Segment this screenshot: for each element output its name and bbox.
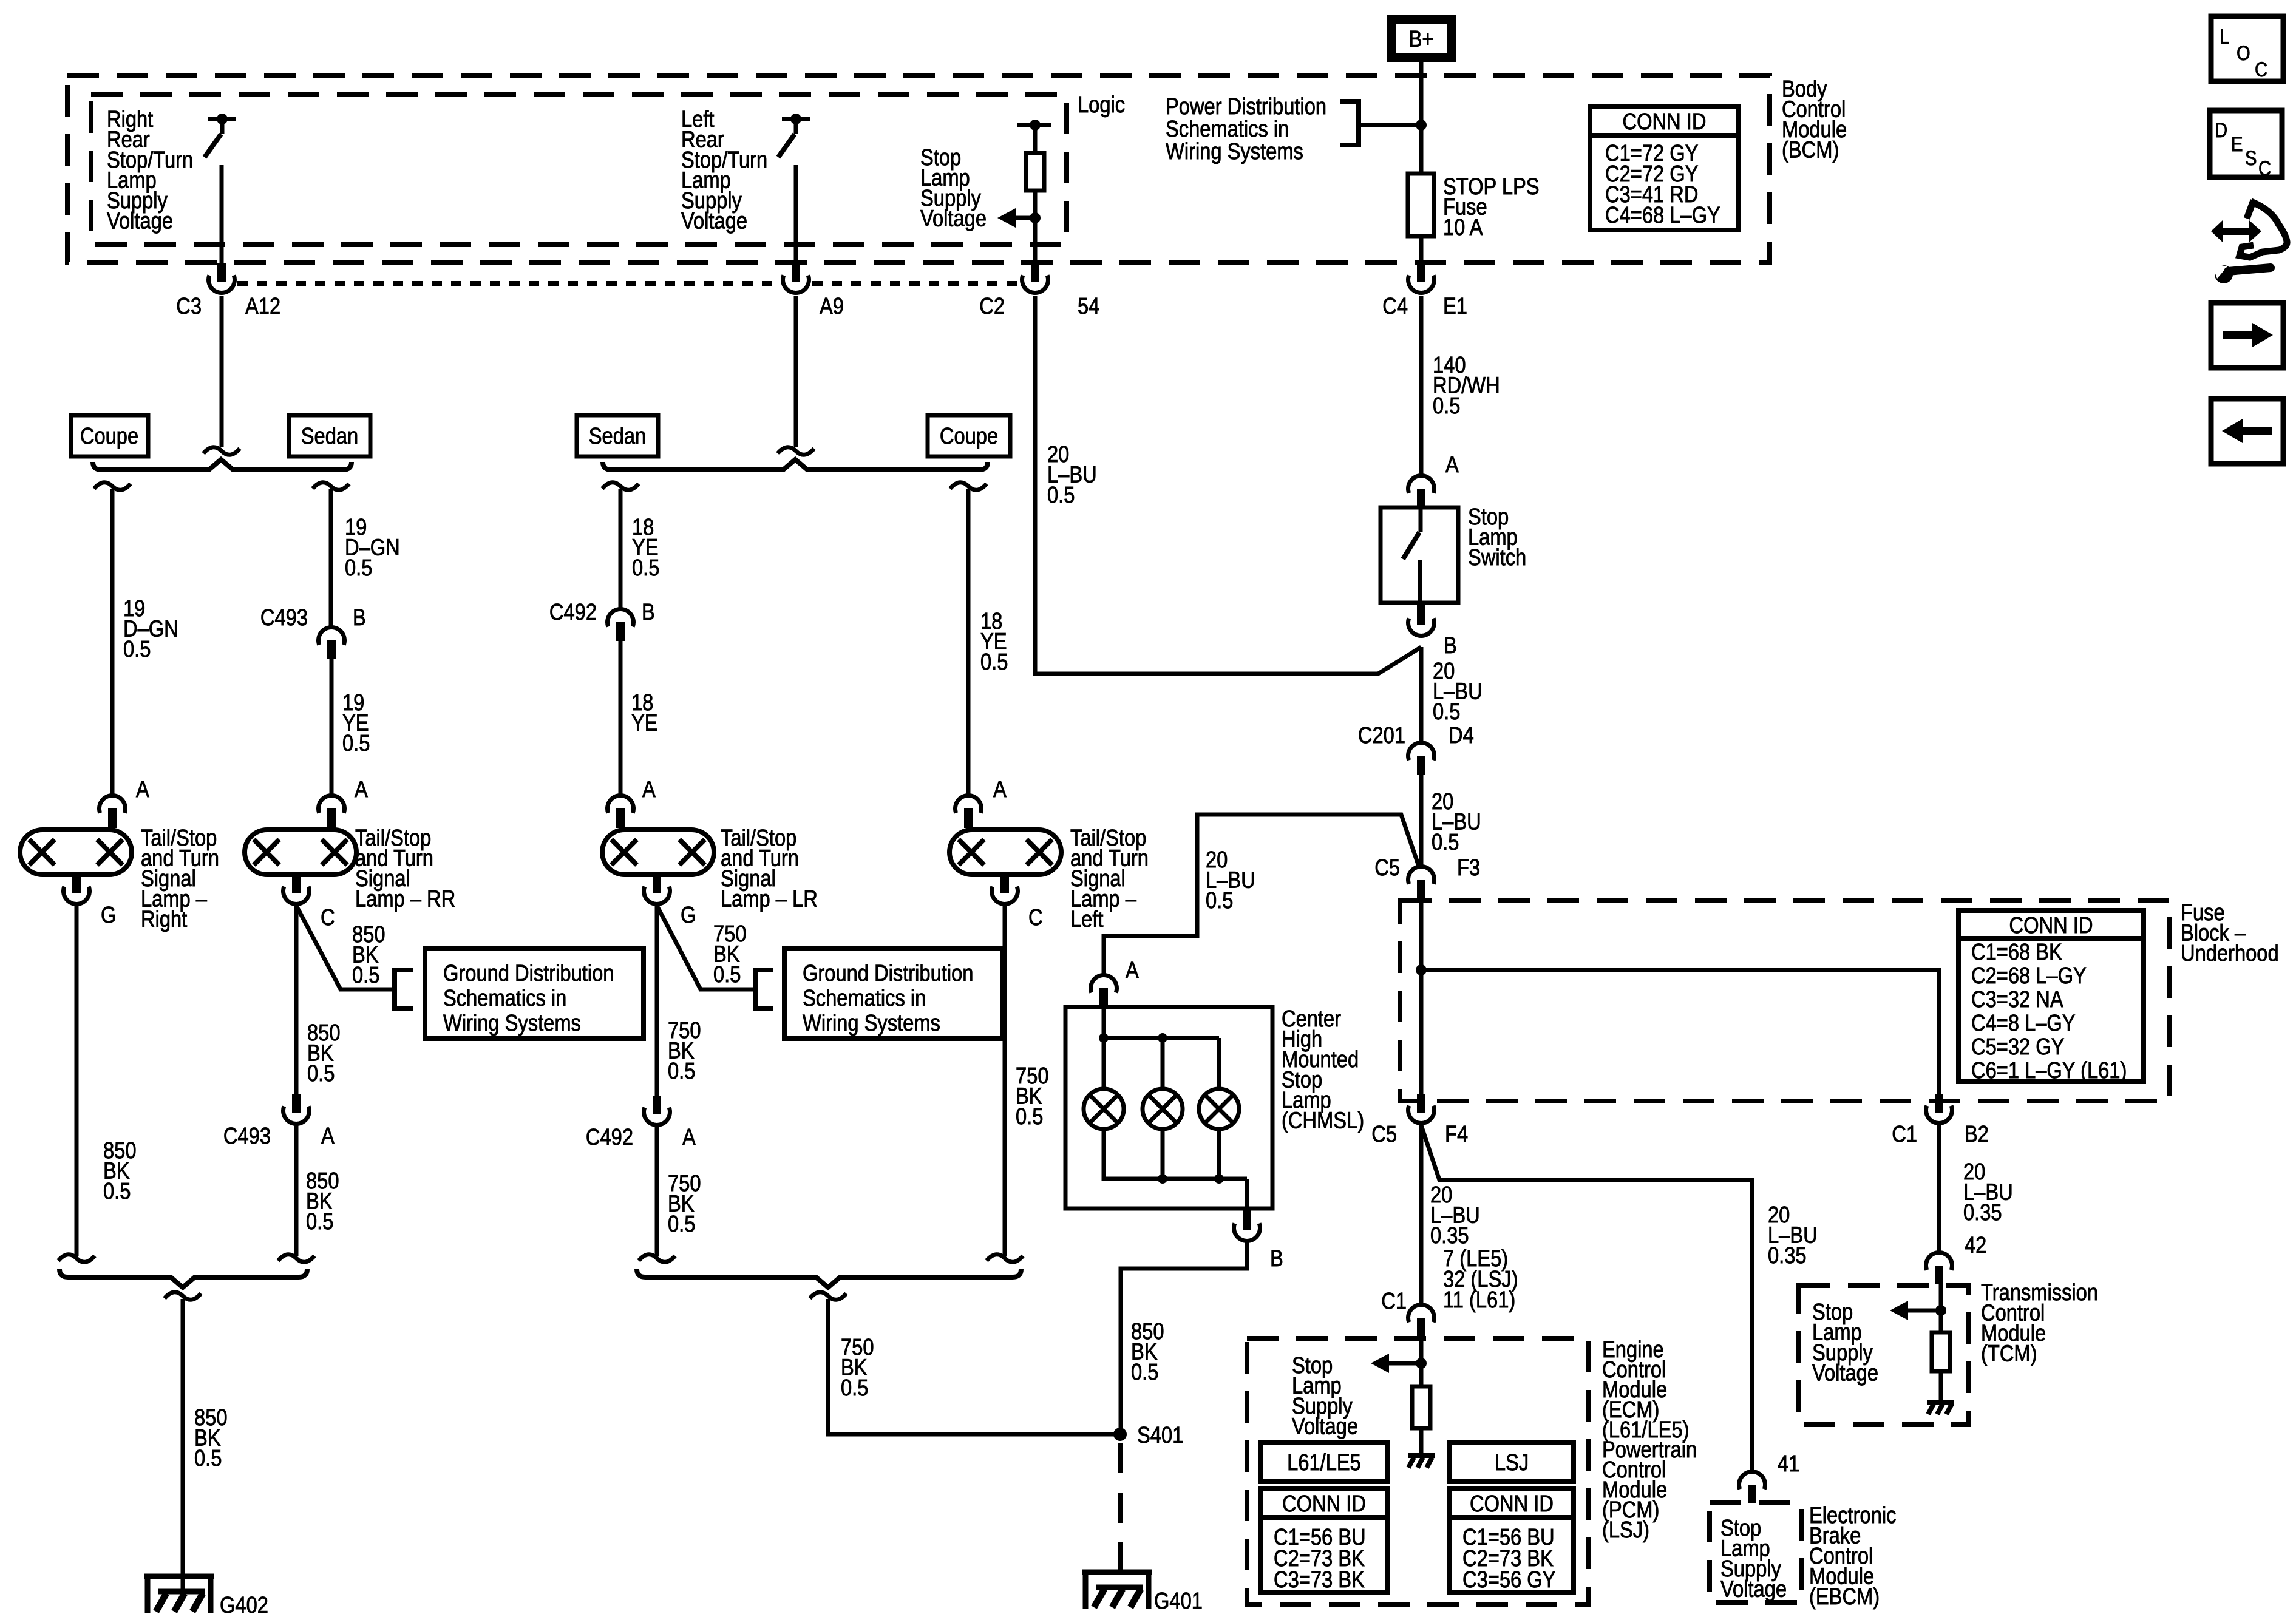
svg-text:C1: C1 — [1381, 1288, 1407, 1314]
stop lamp switch box — [1381, 507, 1458, 603]
svg-text:G: G — [681, 902, 696, 928]
svg-text:C3: C3 — [176, 293, 202, 319]
wire: F4 branch to EBCM — [1421, 1125, 1752, 1471]
svg-text:0.5: 0.5 — [1432, 829, 1459, 855]
svg-text:41: 41 — [1778, 1451, 1799, 1477]
svg-text:(CHMSL): (CHMSL) — [1282, 1107, 1364, 1133]
svg-text:G: G — [101, 902, 116, 928]
svg-text:A: A — [1126, 957, 1139, 983]
bulb 3 CHMSL — [1217, 1038, 1221, 1089]
tail/stop lamp - left — [949, 830, 1061, 875]
svg-text:0.5: 0.5 — [342, 730, 370, 756]
svg-text:C5=32 GY: C5=32 GY — [1971, 1034, 2064, 1060]
svg-text:S401: S401 — [1137, 1422, 1183, 1448]
wire curl below brace (coupe left) — [950, 483, 987, 490]
svg-text:C6=1 L–GY (L61): C6=1 L–GY (L61) — [1971, 1057, 2127, 1083]
svg-text:CONN ID: CONN ID — [1470, 1491, 1554, 1517]
svg-text:C493: C493 — [223, 1123, 271, 1149]
resistor: logic pull element — [1026, 153, 1044, 191]
option tag LSJ — [1450, 1442, 1574, 1482]
brace: coupe/sedan split (right rear) — [93, 459, 352, 470]
wire: lamp right ground — [75, 904, 79, 1256]
wire end curl at brace peak (left rear) — [778, 447, 814, 455]
svg-text:E1: E1 — [1443, 293, 1467, 319]
svg-text:0.5: 0.5 — [194, 1445, 222, 1471]
stop lamp supply voltage logic output — [1017, 123, 1051, 127]
wire curl below brace (sedan left) — [602, 483, 639, 490]
sedan option box (right rear) — [289, 415, 370, 456]
svg-text:0.5: 0.5 — [1047, 482, 1075, 508]
wire end curl (lamp RR ground) — [278, 1255, 314, 1263]
svg-text:Voltage: Voltage — [107, 208, 173, 234]
conn id table (fuse block underhood) — [1958, 910, 2144, 1082]
wire: resistor to ECM ground — [1419, 1428, 1424, 1454]
wire: joined ground to splice S401 — [828, 1299, 1118, 1434]
ground symbol inside TCM — [1927, 1400, 1954, 1405]
connector: lamp LR pin A — [608, 796, 634, 813]
tail/stop lamp - RR — [245, 830, 356, 875]
junction: ECM supply arrow tap — [1416, 1358, 1427, 1369]
svg-text:(LSJ): (LSJ) — [1602, 1517, 1649, 1543]
svg-text:D: D — [2215, 118, 2227, 142]
svg-text:Sedan: Sedan — [301, 423, 358, 449]
wire: B2 down to TCM 42 — [1937, 1124, 1941, 1252]
svg-text:0.5: 0.5 — [123, 636, 151, 662]
wire curl below brace (sedan right) — [313, 483, 349, 490]
power distribution reference bracket — [1340, 101, 1359, 145]
wire: F3 to F4 inside fuse block — [1419, 898, 1424, 1095]
svg-text:C492: C492 — [586, 1124, 633, 1150]
svg-text:C: C — [1028, 904, 1043, 931]
conn id table (ECM L61/LE5) — [1261, 1488, 1387, 1592]
junction inside fuse block — [1416, 964, 1427, 975]
wire: sedan branch upper segment — [329, 489, 333, 626]
connector: lamp right pin G — [75, 873, 79, 877]
wire: C2/54 down then right to stop lamp switch — [1035, 296, 1421, 674]
svg-text:C1: C1 — [1892, 1121, 1917, 1147]
svg-text:0.5: 0.5 — [352, 962, 379, 988]
connector: lamp left pin C — [1000, 875, 1009, 893]
svg-text:CONN ID: CONN ID — [2009, 912, 2093, 938]
dashed wire: S401 to G401 — [1118, 1443, 1123, 1590]
svg-text:0.5: 0.5 — [306, 1209, 333, 1235]
bracket to ground distribution box (LR) — [755, 970, 773, 1008]
svg-text:S: S — [2245, 146, 2257, 170]
svg-text:Voltage: Voltage — [1812, 1360, 1878, 1386]
svg-text:Wiring Systems: Wiring Systems — [803, 1010, 940, 1036]
connector: CHMSL pin A — [1090, 975, 1116, 993]
svg-text:A: A — [1445, 452, 1459, 478]
svg-text:B: B — [642, 599, 655, 625]
svg-text:0.5: 0.5 — [632, 555, 659, 581]
svg-text:Lamp – LR: Lamp – LR — [721, 886, 818, 912]
wire: C201 to C5/F3 — [1419, 775, 1424, 866]
fuse STOP LPS 10A — [1408, 174, 1434, 236]
bulb 2 CHMSL — [1161, 1038, 1165, 1089]
svg-text:L: L — [2220, 25, 2229, 49]
svg-text:C4: C4 — [1382, 293, 1408, 319]
svg-text:0.35: 0.35 — [1963, 1199, 2002, 1225]
svg-text:A9: A9 — [820, 293, 844, 319]
svg-text:Sedan: Sedan — [589, 423, 646, 449]
svg-text:A: A — [682, 1124, 696, 1150]
svg-text:A: A — [321, 1123, 335, 1149]
svg-text:YE: YE — [631, 710, 658, 736]
svg-text:B: B — [1444, 632, 1457, 659]
electronic brake control module dashed box (EBCM) — [1710, 1503, 1802, 1602]
conn id table (ECM LSJ) — [1450, 1488, 1574, 1592]
icon DESC — [2210, 110, 2282, 177]
wire: lamp LR ground spur to ground distribution — [657, 906, 755, 989]
connector: lamp right pin A — [100, 796, 126, 813]
svg-text:G402: G402 — [220, 1592, 268, 1617]
svg-text:C5: C5 — [1374, 855, 1400, 881]
svg-text:B: B — [353, 605, 366, 631]
wire: below A9 to sedan/coupe brace — [794, 296, 798, 447]
connector 42 (TCM) — [1926, 1253, 1952, 1270]
svg-text:B+: B+ — [1409, 26, 1434, 52]
svg-text:F3: F3 — [1457, 855, 1480, 881]
wire: left rear switch output to A9 — [794, 165, 798, 265]
svg-text:C201: C201 — [1358, 722, 1405, 748]
wire: switch B down to C201 — [1419, 647, 1424, 742]
wire: F4 down to ECM C1 — [1419, 1124, 1424, 1304]
wire: right rear switch output to C3 — [220, 165, 224, 265]
icon wrench and double arrow — [2211, 200, 2287, 283]
wire curl below left ground brace — [810, 1292, 846, 1300]
svg-text:CONN ID: CONN ID — [1623, 109, 1707, 135]
svg-text:C2=68 L–GY: C2=68 L–GY — [1971, 963, 2087, 989]
splice S401 — [1113, 1428, 1127, 1441]
svg-text:Ground Distribution: Ground Distribution — [443, 960, 614, 986]
svg-text:C493: C493 — [260, 605, 308, 631]
svg-text:0.5: 0.5 — [345, 555, 372, 581]
svg-text:Ground Distribution: Ground Distribution — [803, 960, 973, 986]
wire: E1 to stop lamp switch pin A — [1419, 296, 1424, 475]
body control module dashed box (BCM) — [67, 75, 1770, 262]
ground G402 — [144, 1574, 214, 1579]
connector C2 pin 54 — [1031, 263, 1039, 282]
fuse block underhood dashed box — [1400, 900, 2170, 1101]
wire end curl (lamp LR ground) — [639, 1255, 675, 1263]
svg-text:54: 54 — [1078, 293, 1099, 319]
svg-text:0.5: 0.5 — [1016, 1103, 1043, 1130]
svg-text:C1=68 BK: C1=68 BK — [1971, 939, 2062, 965]
connector 41 (EBCM) — [1739, 1472, 1765, 1490]
svg-text:C3=32 NA: C3=32 NA — [1971, 986, 2063, 1012]
svg-text:Schematics in: Schematics in — [803, 985, 926, 1011]
coupe option box (left rear) — [928, 415, 1010, 456]
battery feed symbol B+ — [1387, 15, 1456, 62]
wire: resistor to TCM ground — [1939, 1371, 1943, 1401]
connector: lamp LR pin G — [653, 875, 661, 893]
connector C492 pin B — [608, 609, 634, 627]
wire: lamp LR ground down — [655, 904, 659, 1097]
svg-text:L61/LE5: L61/LE5 — [1287, 1449, 1361, 1476]
connector: lamp RR pin C — [292, 875, 301, 893]
connector: lamp left pin A — [956, 796, 982, 813]
wire: coupe branch to lamp right — [110, 489, 115, 795]
svg-text:(TCM): (TCM) — [1981, 1340, 2037, 1366]
connector C3 pin A12 — [217, 263, 226, 282]
conn id table (BCM) — [1590, 106, 1739, 230]
svg-text:Schematics in: Schematics in — [443, 985, 566, 1011]
CHMSL internal bus top — [1102, 1007, 1106, 1039]
connector: stop lamp switch pin B — [1417, 603, 1425, 625]
svg-text:Underhood: Underhood — [2181, 940, 2279, 966]
svg-text:42: 42 — [1965, 1232, 1986, 1258]
svg-text:(BCM): (BCM) — [1782, 137, 1839, 163]
svg-text:0.5: 0.5 — [1433, 699, 1460, 725]
svg-text:C4=68 L–GY: C4=68 L–GY — [1605, 202, 1720, 228]
wire: CHMSL branch joining F3 — [1104, 815, 1419, 974]
wire: fuse to connector C4 — [1419, 236, 1424, 265]
svg-text:Voltage: Voltage — [920, 205, 987, 231]
wire curl below brace (coupe right) — [94, 483, 131, 490]
svg-text:G401: G401 — [1154, 1588, 1203, 1614]
wire: C493 B to lamp RR pin A — [330, 659, 334, 795]
brace: left lamps ground join — [637, 1269, 1021, 1287]
connector C5 pin F4 — [1417, 1094, 1425, 1113]
wire: fuse block bus to B2 side — [1421, 970, 1939, 1095]
ground distribution reference box (RR) — [425, 949, 644, 1039]
svg-text:0.5: 0.5 — [980, 649, 1008, 675]
wire: C1 into ECM — [1419, 1337, 1424, 1388]
svg-text:O: O — [2237, 41, 2250, 65]
icon arrow left — [2211, 399, 2283, 464]
svg-text:0.35: 0.35 — [1430, 1222, 1469, 1249]
wire: bracket to B+ feed — [1359, 123, 1421, 127]
connector: CHMSL pin B — [1243, 1209, 1251, 1230]
ground distribution reference box (LR) — [784, 949, 1003, 1039]
svg-text:0.35: 0.35 — [1768, 1242, 1807, 1269]
svg-text:A: A — [993, 776, 1007, 802]
wire end curl at brace peak (right rear) — [203, 447, 240, 455]
svg-text:Coupe: Coupe — [80, 423, 138, 449]
connector C492 pin A — [653, 1096, 661, 1114]
brace: sedan/coupe split (left rear) — [603, 459, 988, 470]
connector C493 pin B — [319, 628, 345, 645]
svg-text:0.5: 0.5 — [103, 1178, 131, 1204]
transmission control module dashed box (TCM) — [1799, 1286, 1969, 1425]
resistor: TCM input — [1932, 1332, 1950, 1371]
harness dotted line between connectors — [237, 281, 779, 286]
wire: CHMSL B to splice S401 — [1121, 1241, 1247, 1434]
engine control module dashed box (ECM/PCM) — [1247, 1338, 1589, 1604]
switch: left rear stop/turn lamp supply (BCM internal) — [782, 117, 810, 121]
connector: stop lamp switch pin A — [1408, 476, 1435, 493]
svg-text:Coupe: Coupe — [940, 423, 998, 449]
svg-text:C: C — [2258, 157, 2271, 180]
svg-text:11 (L61): 11 (L61) — [1443, 1287, 1515, 1313]
tail/stop lamp - right — [20, 830, 132, 875]
svg-text:Left: Left — [1070, 906, 1104, 932]
bulb 1 CHMSL — [1102, 1038, 1106, 1089]
wire: C492 B to lamp LR pin A — [619, 641, 623, 795]
connector C5 pin F3 (fuse block) — [1408, 867, 1435, 884]
svg-text:B: B — [1270, 1246, 1283, 1272]
bracket to ground distribution box (RR) — [395, 970, 413, 1008]
icon arrow right — [2211, 303, 2283, 368]
svg-text:C: C — [2255, 58, 2267, 81]
svg-text:10 A: 10 A — [1443, 214, 1483, 240]
wire: joined ground to G402 — [181, 1299, 185, 1594]
wire: coupe branch to lamp left — [966, 489, 971, 795]
svg-text:0.5: 0.5 — [668, 1211, 695, 1237]
arrowhead: stop lamp supply voltage (logic) — [997, 208, 1016, 228]
wire end curl (lamp left ground) — [987, 1255, 1023, 1263]
wire: 42 into TCM — [1939, 1284, 1943, 1334]
svg-text:F4: F4 — [1445, 1121, 1468, 1147]
ground symbol inside ECM — [1408, 1453, 1435, 1458]
wire: resistor to logic junction — [1033, 191, 1038, 265]
icon LOC — [2211, 16, 2283, 81]
svg-text:0.5: 0.5 — [841, 1375, 868, 1401]
wire: below C3 to coupe/sedan brace — [220, 296, 224, 447]
svg-text:(EBCM): (EBCM) — [1809, 1584, 1880, 1610]
svg-text:Right: Right — [141, 906, 187, 932]
svg-text:A: A — [642, 776, 656, 802]
wire: C493 A to brace — [294, 1124, 299, 1256]
logic dashed box inside BCM — [91, 95, 1067, 245]
svg-text:C5: C5 — [1371, 1121, 1397, 1147]
svg-text:A: A — [355, 776, 368, 802]
switch blade inside stop lamp switch — [1419, 507, 1423, 532]
svg-text:C492: C492 — [549, 599, 597, 625]
connector C4 pin E1 — [1417, 263, 1425, 282]
connector C493 pin A — [292, 1094, 301, 1113]
sedan option box (left rear) — [577, 415, 658, 456]
svg-text:A12: A12 — [245, 293, 280, 319]
wire: C492 A to brace — [655, 1125, 659, 1256]
junction on B+ feed — [1416, 120, 1427, 131]
wire: lamp RR ground spur to ground distribution — [296, 906, 395, 989]
wire: lamp RR ground down — [294, 904, 299, 1096]
svg-text:Lamp – RR: Lamp – RR — [355, 886, 455, 912]
junction: logic arrow tap — [1030, 212, 1041, 223]
connector C1 pin B2 — [1935, 1094, 1943, 1113]
svg-text:Wiring Systems: Wiring Systems — [1166, 138, 1303, 164]
connector: lamp RR pin A — [319, 796, 345, 813]
option tag L61/LE5 — [1261, 1442, 1387, 1482]
ground G401 — [1082, 1570, 1152, 1575]
connector A9 — [792, 263, 800, 282]
brace: right lamps ground join — [59, 1269, 307, 1287]
svg-text:Voltage: Voltage — [1292, 1413, 1358, 1439]
svg-text:C4=8 L–GY: C4=8 L–GY — [1971, 1010, 2076, 1036]
resistor: ECM input — [1412, 1386, 1430, 1428]
CHMSL internal bus bottom — [1102, 1129, 1106, 1181]
svg-text:LSJ: LSJ — [1495, 1449, 1529, 1476]
svg-text:C: C — [321, 904, 335, 931]
svg-text:Switch: Switch — [1468, 544, 1526, 571]
wire: lamp left ground down — [1003, 904, 1007, 1256]
center high mounted stop lamp box (CHMSL) — [1065, 1007, 1272, 1209]
svg-text:A: A — [136, 776, 149, 802]
svg-text:0.5: 0.5 — [1206, 887, 1233, 914]
svg-text:Logic: Logic — [1078, 92, 1125, 118]
coupe option box (right rear) — [71, 415, 148, 456]
svg-text:Voltage: Voltage — [681, 208, 747, 234]
wire end curl (lamp right ground) — [58, 1255, 95, 1263]
arrowhead: stop lamp supply voltage (ECM) — [1371, 1354, 1389, 1373]
svg-text:CONN ID: CONN ID — [1282, 1491, 1366, 1517]
tail/stop lamp - LR — [602, 830, 714, 875]
switch: right rear stop/turn lamp supply (BCM internal) — [208, 117, 236, 121]
wire curl below right ground brace — [165, 1292, 201, 1300]
svg-text:C2: C2 — [979, 293, 1005, 319]
svg-text:Wiring Systems: Wiring Systems — [443, 1010, 581, 1036]
svg-text:0.5: 0.5 — [307, 1060, 335, 1086]
wire: arrow tap — [1008, 216, 1035, 220]
svg-text:D4: D4 — [1449, 722, 1474, 748]
wire: B+ feed down into BCM — [1419, 61, 1424, 175]
svg-text:E: E — [2231, 132, 2243, 156]
connector C1 (ECM) — [1408, 1305, 1435, 1323]
svg-text:0.5: 0.5 — [1131, 1359, 1158, 1385]
wire: sedan branch upper segment (left) — [619, 489, 623, 608]
svg-text:0.5: 0.5 — [668, 1058, 695, 1084]
arrowhead: stop lamp supply voltage (TCM) — [1890, 1301, 1908, 1320]
svg-text:C3=73 BK: C3=73 BK — [1274, 1567, 1365, 1593]
svg-text:Voltage: Voltage — [1720, 1576, 1787, 1602]
svg-text:B2: B2 — [1965, 1121, 1989, 1147]
svg-text:0.5: 0.5 — [1433, 393, 1460, 419]
connector C201 pin D4 — [1408, 743, 1435, 761]
svg-text:0.5: 0.5 — [713, 961, 741, 988]
svg-text:C3=56 GY: C3=56 GY — [1462, 1567, 1555, 1593]
junction: TCM supply arrow tap — [1935, 1305, 1946, 1316]
